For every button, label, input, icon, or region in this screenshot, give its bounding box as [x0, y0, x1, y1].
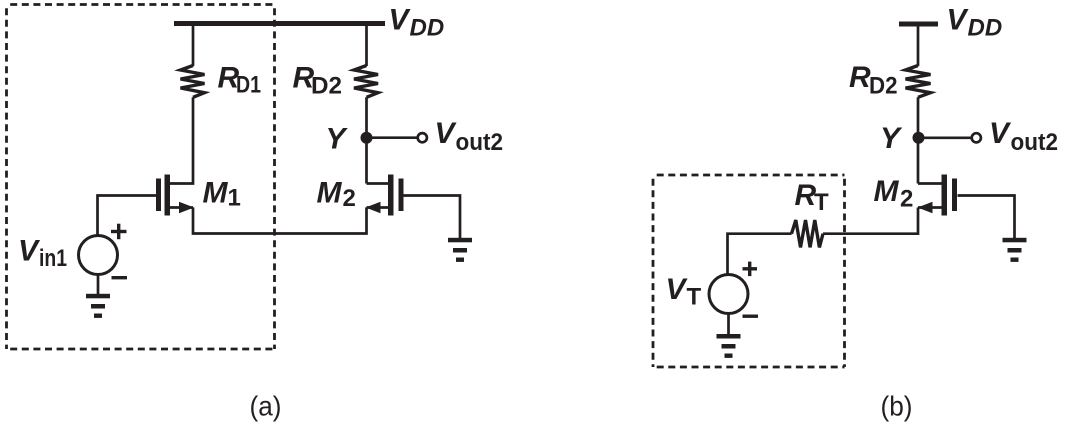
svg-text:2: 2	[900, 186, 913, 213]
wire RD1 to M1 drain	[168, 97, 194, 183]
svg-text:out2: out2	[1011, 129, 1059, 156]
label RT	[795, 179, 830, 216]
svg-text:Y: Y	[880, 122, 903, 155]
svg-text:in1: in1	[39, 245, 67, 272]
svg-text:V: V	[666, 273, 689, 306]
label M1	[203, 176, 241, 211]
source VT	[709, 275, 748, 314]
resistor RT	[792, 220, 824, 247]
svg-text:D1: D1	[236, 72, 261, 99]
label RD1	[218, 62, 262, 99]
label Vout2 (a)	[435, 117, 504, 156]
source Vin1	[79, 236, 118, 275]
label VDD (b)	[947, 4, 1003, 42]
resistor RD2 (b)	[906, 66, 931, 98]
svg-text:out2: out2	[456, 129, 504, 156]
wire Y to output terminal (b)	[919, 136, 972, 139]
terminal Vout2 (a)	[418, 133, 427, 142]
transistor M2 (a)	[388, 175, 404, 216]
svg-text:Y: Y	[326, 123, 349, 156]
VDD rail (a)	[174, 21, 385, 26]
ground VT	[717, 334, 741, 358]
svg-text:(b): (b)	[881, 391, 913, 422]
M2 source lead with arrow (a)	[367, 206, 390, 209]
svg-text:V: V	[947, 4, 970, 37]
wire Vin1 to M1 gate	[98, 196, 157, 236]
svg-text:M: M	[317, 176, 343, 209]
svg-text:V: V	[435, 117, 458, 150]
wire VT to ground	[727, 314, 730, 335]
svg-text:T: T	[687, 284, 702, 311]
node Y (a)	[361, 132, 373, 144]
svg-text:V: V	[989, 117, 1012, 150]
wire rail to RD1	[192, 24, 195, 67]
transistor M1	[156, 175, 170, 216]
M1 source lead with arrow	[168, 206, 194, 209]
M2 drain lead (b)	[918, 182, 942, 185]
label VDD (a)	[389, 4, 445, 42]
svg-text:D2: D2	[869, 72, 898, 99]
svg-text:DD: DD	[968, 15, 1003, 42]
dashed box (a) input network	[7, 5, 275, 350]
terminal Vout2 (b)	[972, 133, 981, 142]
dashed box (b) Thevenin network	[653, 175, 845, 367]
wire Vin1 to ground	[97, 275, 100, 295]
M2 drain lead (a)	[367, 182, 389, 185]
label RD2 (a)	[293, 62, 343, 100]
wire VDD to RD2 (b)	[917, 24, 920, 66]
svg-text:M: M	[203, 176, 229, 209]
wire VT to RT	[728, 234, 792, 275]
minus sign VT	[743, 315, 759, 318]
label M2 (a)	[317, 176, 356, 211]
label Vout2 (b)	[989, 117, 1058, 156]
wire RD2 to M2 drain (a)	[365, 97, 368, 183]
transistor M2 (b)	[942, 175, 958, 216]
M2 source lead with arrow (b)	[918, 206, 943, 209]
wire RD2 to M2 drain (b)	[917, 97, 920, 183]
svg-text:(a): (a)	[250, 391, 282, 422]
ground M2 gate (a)	[448, 238, 472, 262]
ground M2 gate (b)	[1003, 238, 1027, 262]
svg-text:V: V	[389, 4, 412, 37]
label RD2 (b)	[849, 61, 898, 99]
ground Vin1	[86, 294, 110, 318]
VDD bar (b)	[899, 22, 938, 27]
svg-text:D2: D2	[311, 72, 342, 99]
wire M2 gate to ground (a)	[404, 196, 461, 239]
label Vin1	[18, 235, 67, 273]
minus sign Vin1	[112, 276, 128, 279]
svg-text:V: V	[18, 235, 41, 268]
wire M2 gate to ground (b)	[958, 196, 1015, 239]
svg-text:T: T	[814, 189, 829, 216]
label M2 (b)	[874, 175, 914, 213]
label VT	[666, 273, 702, 311]
wire source bus M1 to M2	[193, 208, 367, 234]
svg-text:2: 2	[343, 185, 356, 212]
wire rail to RD2 (a)	[365, 24, 368, 67]
resistor RD1	[181, 66, 205, 98]
wire M2 source down to RT (b)	[823, 208, 918, 234]
plus sign Vin1	[111, 224, 127, 240]
svg-text:M: M	[874, 175, 900, 208]
svg-text:DD: DD	[410, 15, 445, 42]
plus sign VT	[743, 262, 758, 277]
svg-text:1: 1	[228, 185, 241, 212]
resistor RD2 (a)	[354, 66, 378, 98]
node Y (b)	[913, 132, 925, 144]
wire Y to output terminal (a)	[367, 136, 418, 139]
svg-text:R: R	[849, 61, 871, 94]
